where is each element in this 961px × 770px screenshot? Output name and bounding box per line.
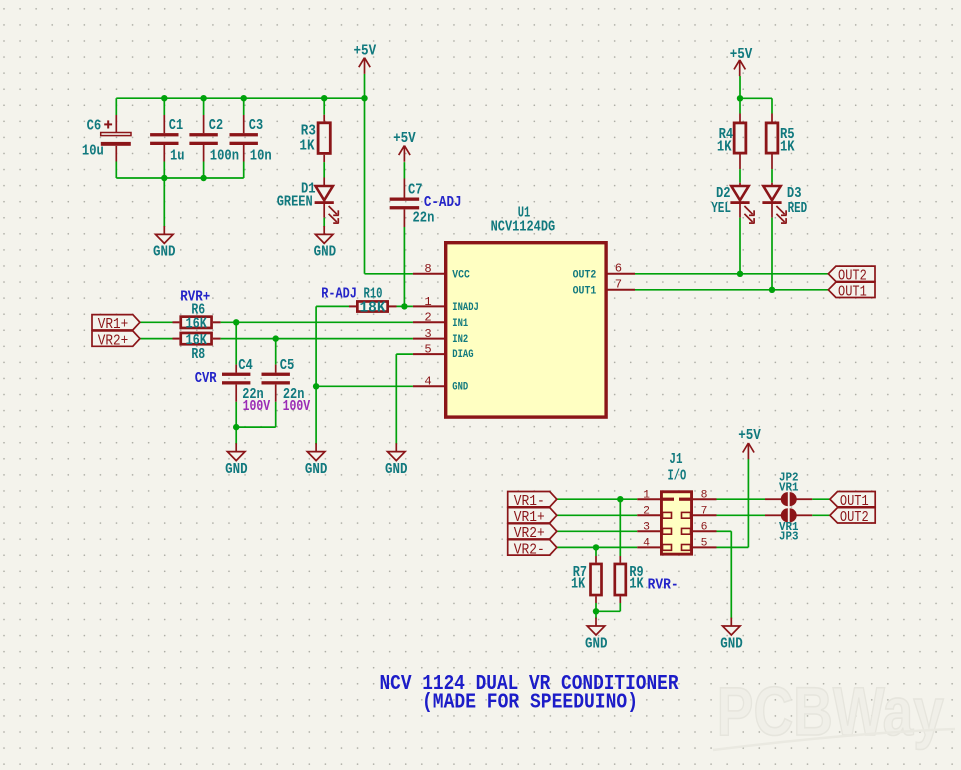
svg-text:5: 5	[424, 343, 431, 357]
svg-text:VR1+: VR1+	[98, 317, 129, 333]
svg-text:8: 8	[424, 262, 431, 276]
svg-text:RED: RED	[788, 201, 808, 217]
svg-text:7: 7	[701, 506, 708, 518]
svg-text:R-ADJ: R-ADJ	[321, 286, 357, 302]
svg-text:1K: 1K	[629, 577, 643, 593]
svg-text:OUT1: OUT1	[838, 285, 867, 301]
svg-text:R8: R8	[191, 347, 205, 363]
svg-text:RVR-: RVR-	[648, 577, 679, 593]
svg-text:INADJ: INADJ	[452, 302, 479, 314]
svg-text:C4: C4	[238, 358, 253, 374]
svg-text:16K: 16K	[185, 333, 207, 349]
svg-text:7: 7	[615, 277, 622, 291]
svg-text:6: 6	[615, 261, 622, 275]
svg-text:C5: C5	[280, 358, 295, 374]
svg-text:OUT1: OUT1	[840, 494, 869, 510]
svg-text:+5V: +5V	[738, 428, 761, 444]
svg-text:3: 3	[643, 522, 650, 534]
svg-text:+5V: +5V	[393, 131, 416, 147]
svg-text:CVR: CVR	[195, 371, 217, 387]
svg-text:VCC: VCC	[452, 270, 470, 282]
svg-text:4: 4	[424, 375, 431, 389]
svg-text:GND: GND	[452, 381, 468, 393]
svg-text:8: 8	[701, 489, 708, 501]
svg-text:D2: D2	[716, 186, 731, 202]
svg-text:GND: GND	[585, 636, 608, 652]
svg-text:GND: GND	[720, 636, 743, 652]
svg-text:C2: C2	[209, 118, 223, 134]
svg-text:10n: 10n	[250, 149, 272, 165]
svg-text:C6: C6	[87, 118, 102, 134]
svg-text:OUT2: OUT2	[840, 510, 869, 526]
svg-text:2: 2	[424, 311, 431, 325]
svg-text:IN1: IN1	[452, 318, 468, 330]
svg-text:VR2+: VR2+	[514, 526, 545, 542]
svg-text:JP3: JP3	[779, 531, 799, 544]
svg-text:(MADE FOR SPEEDUINO): (MADE FOR SPEEDUINO)	[422, 692, 638, 715]
svg-text:RVR+: RVR+	[180, 290, 210, 306]
svg-text:+5V: +5V	[730, 47, 753, 63]
svg-text:22n: 22n	[413, 211, 435, 227]
svg-text:+5V: +5V	[354, 44, 377, 60]
svg-text:VR2-: VR2-	[514, 542, 545, 558]
svg-text:100V: 100V	[283, 399, 311, 415]
svg-text:1K: 1K	[571, 577, 585, 593]
svg-text:1K: 1K	[780, 140, 795, 156]
svg-text:100V: 100V	[243, 399, 271, 415]
svg-text:I/O: I/O	[668, 468, 687, 484]
svg-text:1K: 1K	[299, 138, 314, 154]
svg-text:NCV1124DG: NCV1124DG	[491, 220, 556, 236]
svg-text:5: 5	[701, 538, 708, 550]
svg-text:GND: GND	[225, 462, 248, 478]
svg-text:OUT2: OUT2	[838, 269, 867, 285]
svg-text:1u: 1u	[170, 149, 185, 165]
svg-text:OUT2: OUT2	[573, 270, 597, 282]
svg-text:C1: C1	[169, 118, 184, 134]
svg-text:2: 2	[643, 506, 650, 518]
svg-text:GND: GND	[153, 245, 176, 261]
svg-text:10u: 10u	[82, 144, 104, 160]
svg-text:VR1+: VR1+	[514, 510, 545, 526]
svg-text:100n: 100n	[210, 149, 239, 165]
svg-text:DIAG: DIAG	[452, 349, 473, 361]
svg-text:C7: C7	[408, 183, 423, 199]
svg-text:R3: R3	[301, 124, 316, 140]
svg-text:VR1: VR1	[779, 482, 799, 495]
svg-text:4: 4	[643, 538, 650, 550]
svg-text:D3: D3	[787, 186, 802, 202]
svg-text:YEL: YEL	[711, 201, 731, 217]
svg-text:18K: 18K	[360, 301, 386, 317]
svg-text:IN2: IN2	[452, 334, 468, 346]
svg-text:OUT1: OUT1	[573, 286, 597, 298]
svg-text:C-ADJ: C-ADJ	[424, 195, 462, 211]
svg-text:VR1-: VR1-	[514, 494, 545, 510]
svg-text:6: 6	[701, 522, 708, 534]
svg-text:GND: GND	[314, 245, 337, 261]
svg-text:GREEN: GREEN	[277, 195, 313, 211]
svg-text:16K: 16K	[185, 317, 207, 333]
svg-text:VR2+: VR2+	[98, 334, 129, 350]
svg-text:3: 3	[424, 327, 431, 341]
svg-text:GND: GND	[385, 462, 408, 478]
svg-text:J1: J1	[669, 452, 682, 468]
svg-text:C3: C3	[249, 118, 263, 134]
svg-text:1: 1	[424, 295, 431, 309]
svg-text:GND: GND	[305, 462, 328, 478]
svg-text:1: 1	[643, 489, 650, 501]
svg-text:1K: 1K	[717, 140, 732, 156]
